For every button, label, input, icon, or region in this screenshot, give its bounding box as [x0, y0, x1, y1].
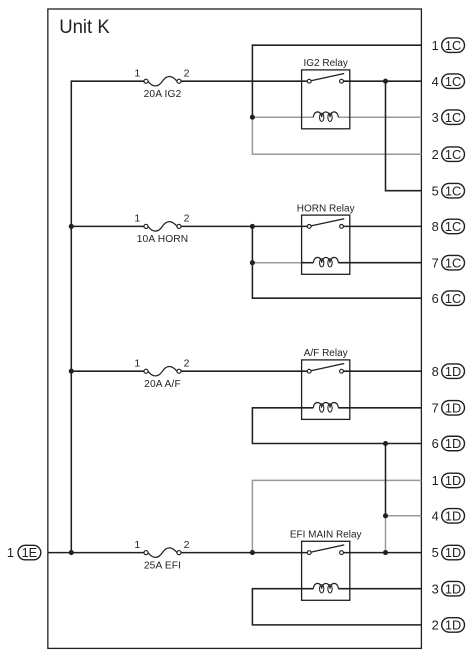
terminal 4 (1C) — [432, 74, 465, 89]
svg-text:A/F Relay: A/F Relay — [304, 348, 348, 359]
svg-text:1D: 1D — [445, 545, 461, 560]
wire: branch down from HORN feed to terminal 6 (1C) — [252, 226, 421, 298]
wire: branch down to terminal 5 (1C) — [386, 81, 422, 191]
junction: IG2 switch output / branch to terminal 5 — [383, 79, 388, 84]
wire: terminal 1 (1E) feed to bus — [48, 552, 71, 554]
terminal 5 (1D) — [432, 545, 465, 560]
wire: main supply bus vertical with elbow to fuse F1 row — [71, 81, 144, 552]
svg-text:1D: 1D — [445, 508, 461, 523]
relay K3 A/F: coil — [313, 402, 338, 412]
terminal 3 (1C) — [432, 110, 465, 125]
svg-text:1D: 1D — [445, 581, 461, 596]
svg-text:2: 2 — [184, 213, 190, 225]
svg-text:1D: 1D — [445, 436, 461, 451]
wire: HORN branch node to relay coil (gray) — [252, 262, 301, 264]
junction: IG2 coil node — [250, 115, 255, 120]
wire: fuse F3 to A/F relay switch input — [181, 370, 307, 372]
wire: branch down to EFI switch output node (gray) — [385, 516, 387, 553]
svg-text:3: 3 — [432, 110, 439, 125]
svg-text:1C: 1C — [445, 38, 461, 53]
fuse F2 (10A HORN) — [144, 222, 181, 231]
wire: A/F relay switch output to terminal 8 (1D) — [343, 370, 421, 372]
svg-text:1: 1 — [134, 539, 140, 551]
svg-text:5: 5 — [432, 545, 439, 560]
svg-text:7: 7 — [432, 400, 439, 415]
terminal 5 (1C) — [432, 183, 465, 198]
wire: IG2 relay coil to terminal 3 (1C) (gray) — [338, 116, 421, 118]
svg-text:8: 8 — [432, 364, 439, 379]
junction: HORN feed / coil branch — [250, 224, 255, 229]
junction: branch / terminal 4 (1D) row — [383, 513, 388, 518]
svg-text:1C: 1C — [445, 147, 461, 162]
wire: IG2 coil node to relay coil (gray) — [252, 116, 313, 118]
wire: junction to terminal 4 (1D) (gray) — [386, 515, 422, 517]
relay K2 HORN: box — [302, 215, 350, 274]
wire: IG2 relay switch output to terminal 4 (1C) — [343, 80, 421, 82]
wire: bus to fuse F3 — [71, 370, 144, 372]
svg-text:1: 1 — [134, 358, 140, 370]
wire: HORN relay switch output to terminal 8 (1C) — [343, 225, 421, 227]
Unit K junction block boundary — [48, 9, 422, 648]
junction: bus / fuse F2 10A HORN row — [69, 224, 74, 229]
svg-text:1D: 1D — [445, 400, 461, 415]
relay K1 IG2: switch contact — [307, 74, 344, 84]
junction: bus / fuse F4 25A EFI row — [69, 550, 74, 555]
terminal 4 (1D) — [432, 508, 465, 523]
svg-text:1E: 1E — [22, 545, 38, 560]
svg-text:1: 1 — [134, 68, 140, 80]
svg-text:4: 4 — [432, 508, 439, 523]
svg-text:8: 8 — [432, 219, 439, 234]
svg-text:HORN Relay: HORN Relay — [297, 203, 355, 214]
relay K1 IG2: box — [302, 70, 350, 129]
junction: HORN coil branch node — [250, 260, 255, 265]
wire: fuse F2 to HORN relay switch input — [181, 225, 307, 227]
svg-text:1D: 1D — [445, 617, 461, 632]
terminal 1 (1E) — [7, 545, 41, 560]
svg-text:1C: 1C — [445, 74, 461, 89]
fuse F3 (20A A/F) — [144, 366, 181, 375]
terminal 7 (1C) — [432, 255, 465, 270]
terminal 1 (1C) — [432, 38, 465, 53]
wire: branch down to terminal 4 junction — [385, 444, 387, 516]
junction: terminal 6 (1D) row / down branch — [383, 441, 388, 446]
svg-text:1: 1 — [7, 545, 14, 560]
terminal 8 (1C) — [432, 219, 465, 234]
relay K2 HORN: switch contact — [307, 219, 344, 229]
relay K4 EFI MAIN: coil — [313, 583, 338, 593]
junction: EFI feed / terminal 1 (1D) branch — [250, 550, 255, 555]
svg-text:1D: 1D — [445, 364, 461, 379]
wire: terminal 1 (1D) feed down to EFI switch input (gray) — [252, 480, 421, 552]
svg-text:3: 3 — [432, 581, 439, 596]
svg-text:EFI MAIN Relay: EFI MAIN Relay — [290, 530, 362, 541]
svg-text:1: 1 — [134, 213, 140, 225]
relay K3 A/F: switch contact — [307, 364, 344, 374]
wire: terminal 1 (1C) feed down to IG2 coil node — [252, 45, 421, 117]
wire: A/F relay coil left lead down to terminal 6 (1D) — [252, 408, 421, 444]
relay K1 IG2: coil — [313, 112, 338, 122]
wire: HORN relay coil to terminal 7 (1C) — [338, 262, 421, 264]
terminal 7 (1D) — [432, 400, 465, 415]
svg-text:1C: 1C — [445, 219, 461, 234]
terminal 2 (1D) — [432, 617, 465, 632]
terminal 8 (1D) — [432, 364, 465, 379]
svg-text:20A A/F: 20A A/F — [144, 379, 181, 390]
svg-text:1C: 1C — [445, 183, 461, 198]
wire: EFI MAIN relay coil left lead down to terminal 2 (1D) — [252, 589, 421, 625]
terminal 2 (1C) — [432, 147, 465, 162]
svg-text:4: 4 — [432, 74, 439, 89]
fuse F1 (20A IG2) — [144, 76, 181, 85]
svg-text:6: 6 — [432, 291, 439, 306]
relay K4 EFI MAIN: switch contact — [307, 545, 344, 555]
svg-text:10A HORN: 10A HORN — [137, 234, 189, 245]
terminal 3 (1D) — [432, 581, 465, 596]
svg-text:IG2 Relay: IG2 Relay — [303, 58, 347, 69]
fuse F4 (25A EFI) — [144, 548, 181, 557]
wire: bus to fuse F4 — [71, 552, 144, 554]
relay K3 A/F: box — [302, 360, 350, 420]
svg-text:2: 2 — [432, 618, 439, 633]
wire: bus to fuse F2 — [71, 225, 144, 227]
wire: IG2 coil node branch to terminal 2 (1C) (gray) — [252, 117, 421, 154]
wire: EFI MAIN relay coil to terminal 3 (1D) — [338, 588, 421, 590]
wire: A/F relay coil to terminal 7 (1D) — [338, 407, 421, 409]
svg-text:1C: 1C — [445, 291, 461, 306]
terminal 1 (1D) — [432, 473, 465, 488]
svg-text:1: 1 — [432, 473, 439, 488]
svg-text:5: 5 — [432, 183, 439, 198]
svg-text:2: 2 — [184, 68, 190, 80]
junction: bus / fuse F3 20A A/F row — [69, 369, 74, 374]
svg-text:6: 6 — [432, 436, 439, 451]
svg-text:2: 2 — [184, 358, 190, 370]
svg-text:20A IG2: 20A IG2 — [144, 89, 182, 100]
svg-text:7: 7 — [432, 255, 439, 270]
relay K4 EFI MAIN: box — [302, 541, 350, 600]
relay K2 HORN: coil — [313, 257, 338, 267]
svg-text:1D: 1D — [445, 473, 461, 488]
svg-text:25A EFI: 25A EFI — [144, 560, 181, 571]
wire: EFI MAIN relay switch output to terminal 5 (1D) — [343, 552, 421, 554]
svg-text:2: 2 — [432, 147, 439, 162]
svg-text:1C: 1C — [445, 255, 461, 270]
terminal 6 (1D) — [432, 436, 465, 451]
wire: fuse F1 to IG2 relay switch input — [181, 80, 307, 82]
terminal 6 (1C) — [432, 291, 465, 306]
svg-text:Unit K: Unit K — [59, 16, 109, 38]
wire: fuse F4 to EFI MAIN relay switch input — [181, 552, 307, 554]
svg-text:2: 2 — [184, 539, 190, 551]
svg-text:1: 1 — [432, 38, 439, 53]
svg-text:1C: 1C — [445, 110, 461, 125]
wire: HORN relay coil lead inside box — [302, 262, 314, 264]
junction: EFI switch output / vertical branch — [383, 550, 388, 555]
